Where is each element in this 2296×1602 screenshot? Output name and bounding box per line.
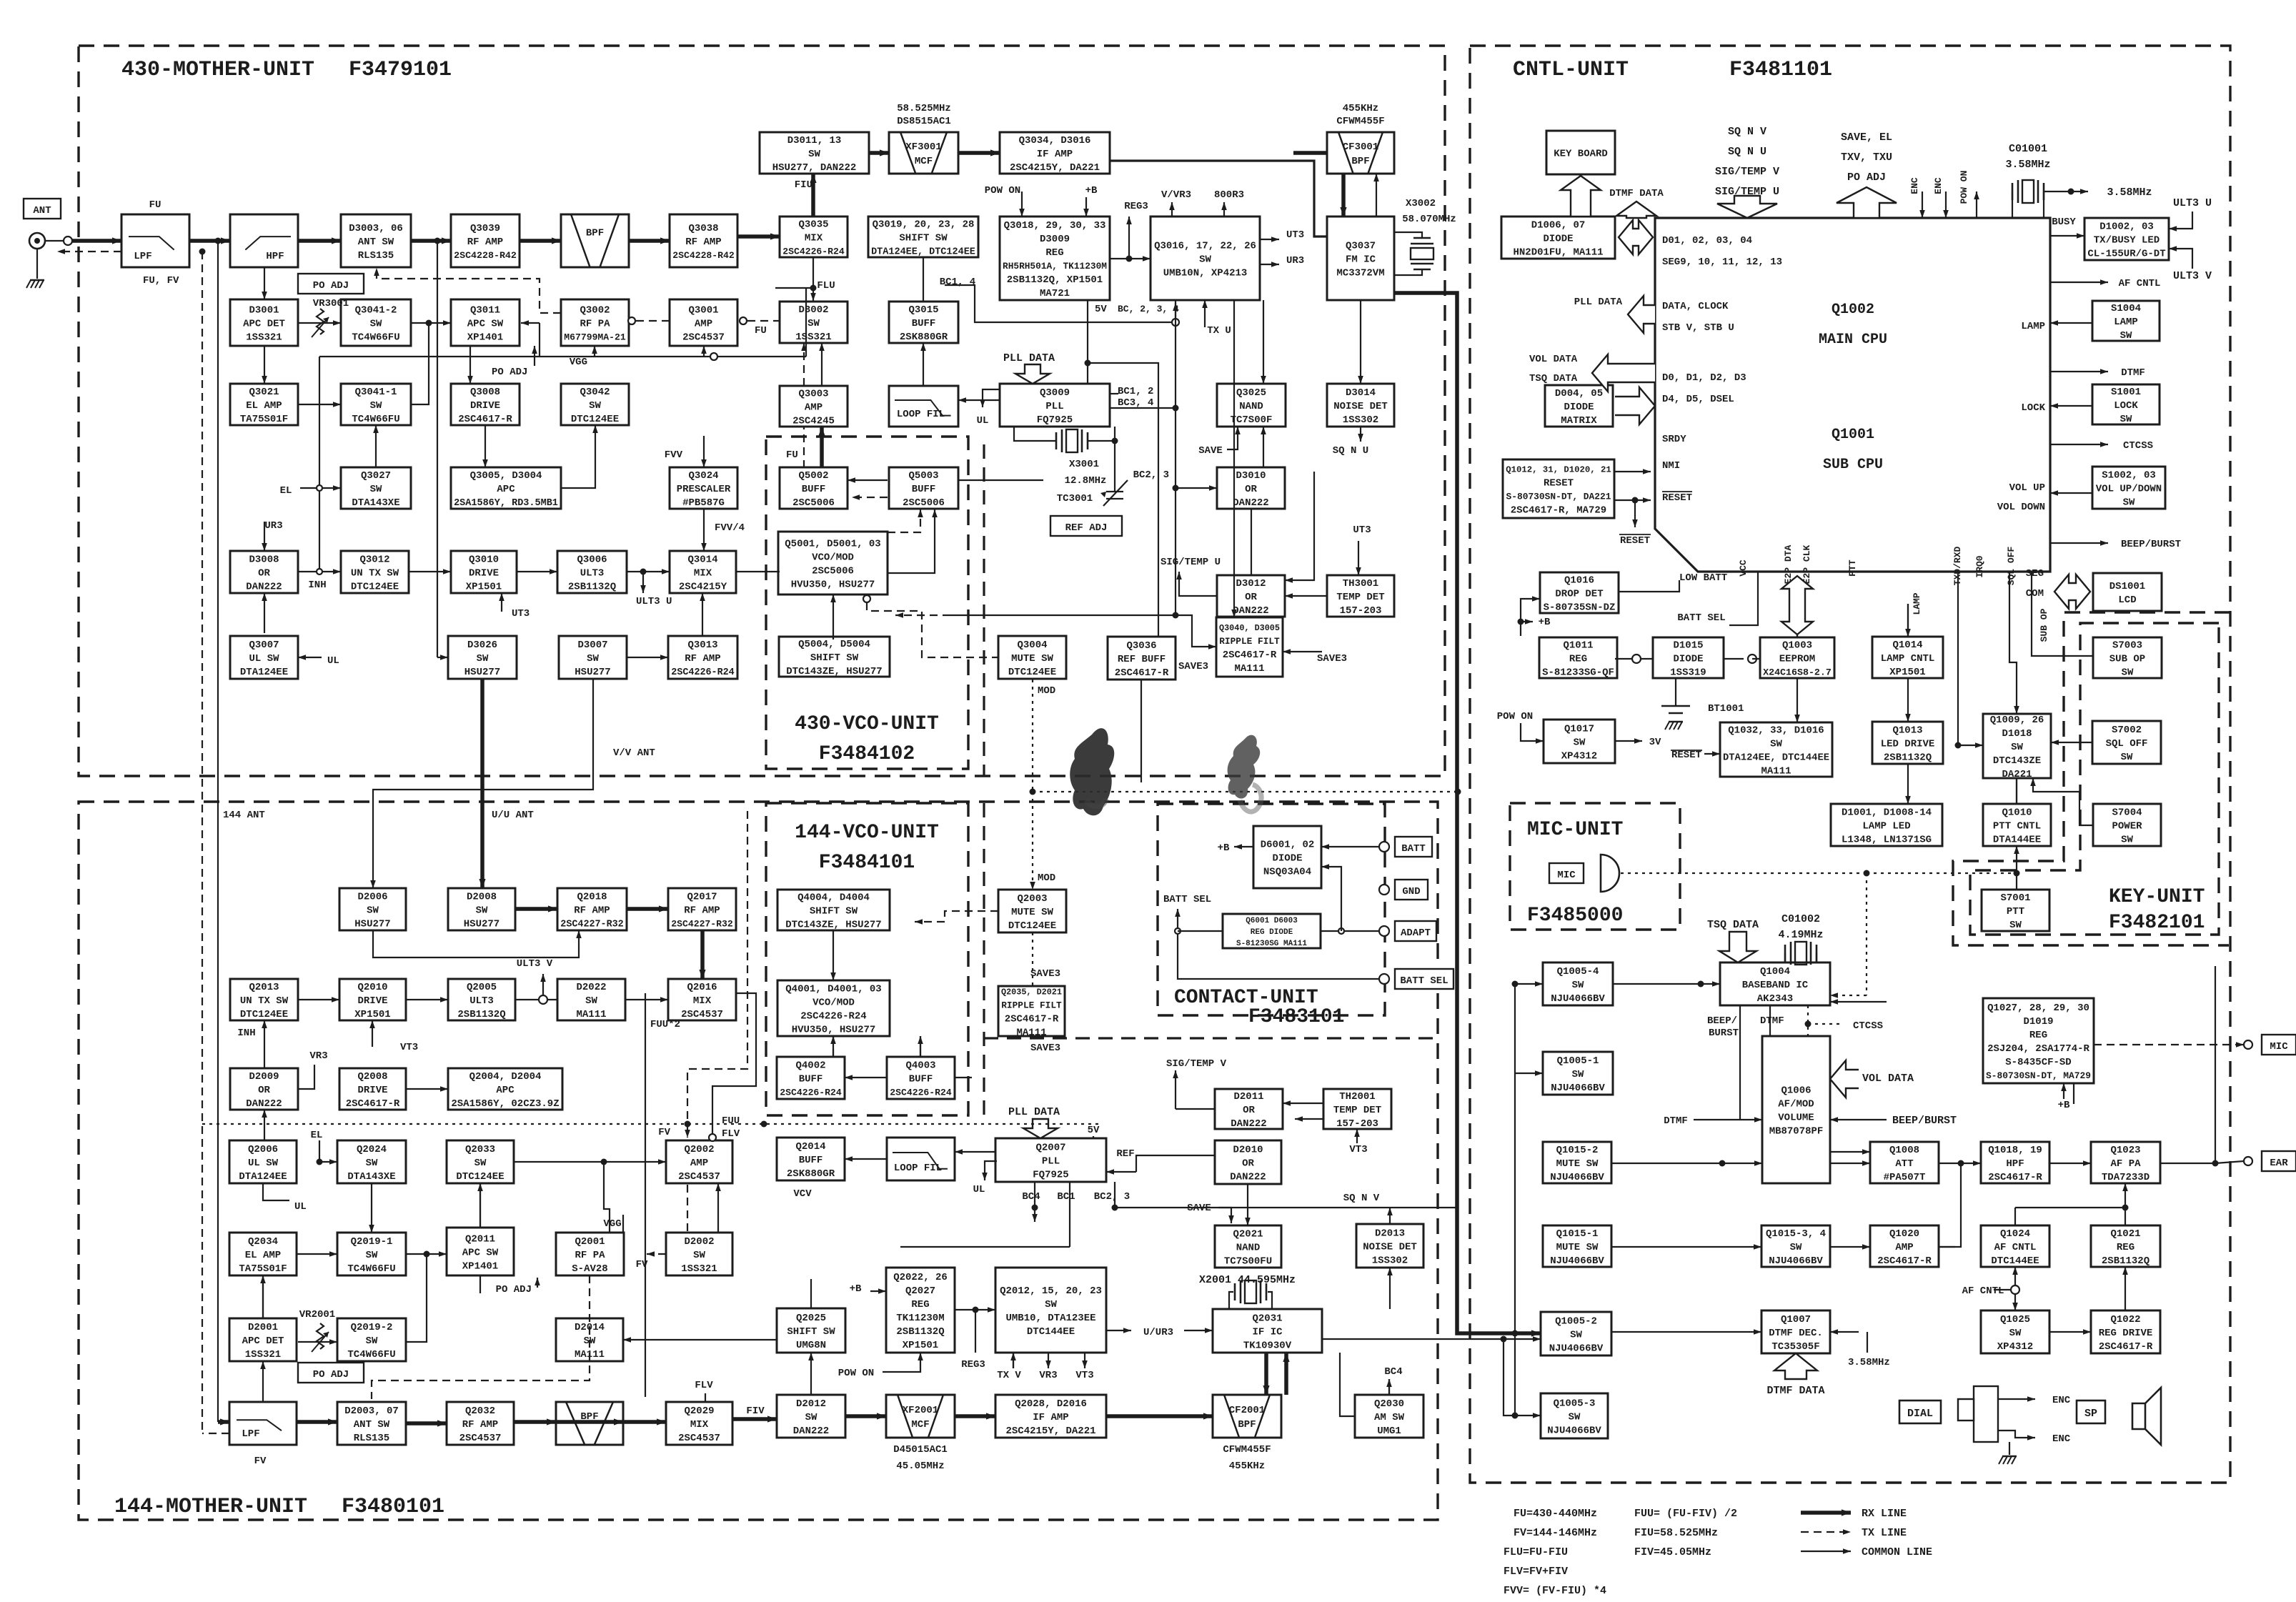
svg-text:SP: SP — [2084, 1408, 2097, 1420]
svg-text:Q3040, D3005: Q3040, D3005 — [1219, 623, 1280, 633]
block Q2001 RF PA — [556, 1233, 624, 1275]
svg-text:VOL DATA: VOL DATA — [1862, 1073, 1914, 1085]
svg-text:DS1001: DS1001 — [2109, 581, 2145, 592]
block D3014 NOISE DET — [1327, 384, 1394, 427]
wire UL into Q3007 — [298, 657, 322, 658]
svg-text:DAN222: DAN222 — [246, 581, 282, 592]
svg-text:VOL UP: VOL UP — [2009, 482, 2045, 494]
svg-text:SW: SW — [1570, 1329, 1582, 1340]
wire Q5003 right out — [958, 479, 1043, 481]
svg-text:RIPPLE FILT: RIPPLE FILT — [1219, 636, 1280, 647]
wire Q3035 to D3002 FLU — [812, 257, 814, 301]
svg-text:VT3: VT3 — [400, 1042, 418, 1053]
svg-text:Q2024: Q2024 — [357, 1144, 387, 1155]
wire VCO to Q4003 — [920, 1036, 921, 1057]
svg-text:Q5002: Q5002 — [798, 470, 828, 482]
svg-text:SW: SW — [474, 1158, 487, 1169]
svg-text:430-VCO-UNIT: 430-VCO-UNIT — [795, 713, 939, 735]
wire Q2005 out — [515, 999, 557, 1000]
svg-text:D3001: D3001 — [249, 304, 279, 316]
wire odot up into Q3016 — [1175, 303, 1176, 319]
wire LPF up to D2001 — [262, 1361, 264, 1402]
svg-text:REF: REF — [1116, 1148, 1134, 1160]
svg-text:VT3: VT3 — [1075, 1370, 1093, 1381]
wire Q2031 down to CF2001 — [1264, 1353, 1268, 1395]
svg-text:LPF: LPF — [242, 1428, 259, 1440]
svg-text:Q2004, D2004: Q2004, D2004 — [469, 1071, 542, 1083]
svg-text:DROP DET: DROP DET — [1555, 588, 1603, 599]
svg-text:DTC124EE: DTC124EE — [240, 1009, 288, 1020]
svg-text:UL: UL — [977, 415, 989, 427]
wire ADAPT up to D6001 — [1321, 867, 1341, 931]
trimmer capacitor TC3001 — [1103, 480, 1128, 506]
svg-text:FM IC: FM IC — [1346, 254, 1376, 265]
svg-text:BPF: BPF — [1351, 156, 1369, 167]
svg-text:Q1005-4: Q1005-4 — [1557, 966, 1599, 977]
svg-text:REF BUFF: REF BUFF — [1118, 654, 1166, 665]
wire Q2012 U/UR3 out — [1106, 1330, 1131, 1331]
block Q2012 SW — [995, 1268, 1106, 1353]
wire BPF to Q2029 — [623, 1420, 666, 1424]
svg-text:SRDY: SRDY — [1662, 434, 1686, 445]
svg-text:DTA143XE: DTA143XE — [352, 497, 399, 509]
svg-text:TH3001: TH3001 — [1343, 578, 1378, 589]
block Q3042 SW — [561, 384, 629, 425]
svg-text:Q2022, 26: Q2022, 26 — [893, 1272, 948, 1283]
svg-text:RESET: RESET — [1662, 492, 1692, 504]
svg-text:D2001: D2001 — [248, 1322, 278, 1333]
wire SQL OFF down to Q1009 — [2009, 572, 2017, 714]
svg-text:KEY-UNIT: KEY-UNIT — [2109, 886, 2205, 908]
block DIAL — [1899, 1400, 1941, 1423]
svg-text:DIAL: DIAL — [1907, 1408, 1933, 1420]
wire LAMP sw to CPU — [2050, 322, 2092, 324]
svg-text:DRIVE: DRIVE — [357, 1085, 387, 1096]
svg-text:Q3007: Q3007 — [249, 640, 279, 651]
svg-text:FV=144-146MHz: FV=144-146MHz — [1514, 1527, 1597, 1539]
block Q4001 VCO/MOD — [777, 980, 890, 1036]
wire vertical right of Q1027 — [2215, 966, 2216, 1163]
svg-text:BUFF: BUFF — [909, 1073, 933, 1085]
svg-text:S-81230SG MA111: S-81230SG MA111 — [1236, 940, 1307, 948]
svg-text:Q2002: Q2002 — [684, 1144, 714, 1155]
svg-text:2SC4228-R42: 2SC4228-R42 — [454, 250, 517, 261]
wire X3001 right leg to TC3001 — [1114, 427, 1115, 492]
wire Q1008 to Q1018 — [1939, 1163, 1981, 1164]
wire ULT3 V into LED — [2169, 249, 2192, 269]
wire TH2001 to D2011 — [1283, 1103, 1323, 1104]
wire TX U into Q3016 — [1204, 300, 1206, 327]
block Q2019-2 SW — [337, 1318, 406, 1361]
svg-text:Q3037: Q3037 — [1346, 240, 1376, 252]
svg-text:SQL OFF: SQL OFF — [2006, 546, 2017, 585]
svg-text:COM: COM — [2026, 588, 2044, 599]
wire D2011 left — [1176, 1108, 1215, 1110]
svg-text:MA111: MA111 — [1761, 765, 1791, 777]
wire AF CNTL node — [1994, 1289, 2015, 1290]
svg-text:4.19MHz: 4.19MHz — [1778, 929, 1823, 941]
filter XF2001 MCF — [886, 1395, 955, 1438]
block D1002,03 TX/BUSY LED — [2084, 218, 2169, 260]
svg-text:2SK880GR: 2SK880GR — [900, 332, 948, 343]
svg-text:REG: REG — [1569, 653, 1587, 665]
wire VT3 into Q2010 — [372, 1020, 373, 1047]
wire Q2034 down — [262, 1275, 264, 1318]
svg-text:DRIVE: DRIVE — [357, 995, 387, 1007]
wire XF2001 to Q2028 — [955, 1414, 995, 1418]
svg-text:AF PA: AF PA — [2110, 1158, 2141, 1170]
svg-text:REG3: REG3 — [1124, 201, 1148, 212]
svg-text:MIX: MIX — [805, 232, 823, 244]
svg-text:RF PA: RF PA — [575, 1250, 605, 1261]
svg-text:DTMF DEC.: DTMF DEC. — [1769, 1328, 1823, 1339]
wire LAMP down to Q1014 — [1907, 604, 1909, 637]
block Q4003 BUFF — [887, 1057, 955, 1099]
svg-text:DIODE: DIODE — [1673, 653, 1703, 665]
svg-text:Q1005-1: Q1005-1 — [1557, 1055, 1599, 1067]
svg-text:RX LINE: RX LINE — [1862, 1508, 1907, 1520]
wire Q5004 up to VCO — [833, 594, 834, 640]
svg-text:Q3024: Q3024 — [688, 470, 718, 482]
svg-text:Q1027, 28, 29, 30: Q1027, 28, 29, 30 — [1987, 1003, 2089, 1014]
wire Q2011 down — [479, 1275, 481, 1293]
svg-text:D1019: D1019 — [2023, 1016, 2053, 1028]
wire Q3018 to Q3016 — [1110, 258, 1151, 259]
svg-text:NMI: NMI — [1662, 460, 1680, 472]
svg-text:D2022: D2022 — [576, 982, 606, 993]
svg-text:SW: SW — [1199, 254, 1211, 265]
block Q3001 AMP — [670, 299, 737, 346]
wire into Q1005-4 — [1515, 983, 1543, 985]
svg-text:EL: EL — [311, 1130, 323, 1141]
svg-text:FVV= (FV-FIU) *4: FVV= (FV-FIU) *4 — [1504, 1585, 1606, 1597]
wire DTMF out — [2050, 371, 2108, 372]
wire Q5003 to Q5002 — [848, 479, 888, 481]
unit frame KEY-UNIT inner — [1970, 623, 2219, 935]
wire D2022 to Q2016 — [625, 999, 668, 1000]
svg-text:1SS321: 1SS321 — [245, 1349, 281, 1360]
block D3002 SW — [780, 302, 848, 343]
wire VCO dashed down to Q3004 — [863, 595, 870, 602]
block Q3039 RF AMP — [451, 214, 520, 267]
svg-text:3.58MHz: 3.58MHz — [2107, 186, 2152, 199]
wire D3010 down to D3012 — [1251, 509, 1252, 575]
svg-text:RLS135: RLS135 — [358, 250, 394, 262]
block TH2001 TEMP DET — [1323, 1089, 1391, 1130]
block Q3015 BUFF — [889, 302, 958, 343]
block Q5004 SHIFT SW — [779, 637, 890, 677]
svg-text:D3014: D3014 — [1346, 387, 1376, 399]
wire UR3 out — [1260, 264, 1279, 265]
svg-text:2SA1586Y, RD3.5MB1: 2SA1586Y, RD3.5MB1 — [454, 498, 558, 509]
block S1004 LAMP SW — [2092, 301, 2160, 342]
block Q2029 MIX — [666, 1402, 732, 1445]
block Q3013 RF AMP — [668, 636, 737, 679]
svg-text:HSU277: HSU277 — [354, 918, 390, 930]
svg-text:VR3001: VR3001 — [313, 298, 349, 309]
block Q2005 ULT3 — [448, 979, 515, 1020]
svg-text:Q2001: Q2001 — [575, 1236, 605, 1248]
block Q1008 ATT — [1870, 1142, 1939, 1183]
dashed CTCSS — [1807, 1005, 1809, 1036]
svg-text:LOW BATT: LOW BATT — [1679, 572, 1727, 584]
wire crystal to Q1004 — [1784, 953, 1786, 962]
wire dashed up to D3002 — [803, 343, 805, 386]
svg-text:5V: 5V — [1095, 304, 1107, 315]
svg-text:PO ADJ: PO ADJ — [1847, 171, 1886, 184]
filter CF3001 BPF — [1327, 132, 1394, 174]
wire bus down to Q1005-2 — [1514, 1073, 1516, 1333]
svg-text:TXV, TXU: TXV, TXU — [1841, 151, 1892, 164]
svg-text:SEG: SEG — [2026, 568, 2044, 579]
block D2013 NOISE DET — [1356, 1224, 1423, 1268]
wire VCO down — [833, 1036, 834, 1057]
svg-text:UT3: UT3 — [1353, 524, 1371, 536]
svg-text:IF AMP: IF AMP — [1033, 1412, 1068, 1423]
dashed aux frame 144/contact region — [983, 803, 985, 1115]
svg-text:DTC124EE: DTC124EE — [571, 414, 619, 425]
svg-text:F3480101: F3480101 — [342, 1495, 444, 1519]
svg-text:LAMP LED: LAMP LED — [1862, 820, 1910, 832]
svg-text:AF/MOD: AF/MOD — [1778, 1098, 1814, 1110]
svg-text:DATA, CLOCK: DATA, CLOCK — [1662, 301, 1729, 312]
svg-text:UN TX SW: UN TX SW — [351, 567, 399, 579]
wire to 3.58MHz out — [2044, 191, 2071, 192]
wire 3.58MHz into Q1007 — [1830, 1331, 1859, 1333]
wire UL stub — [263, 1183, 289, 1200]
svg-text:INH: INH — [308, 579, 326, 591]
svg-text:DTMF DATA: DTMF DATA — [1766, 1385, 1824, 1397]
svg-text:SW: SW — [1790, 1242, 1802, 1253]
svg-text:UMB10, DTA123EE: UMB10, DTA123EE — [1005, 1313, 1095, 1324]
svg-text:Q2034: Q2034 — [248, 1236, 278, 1248]
svg-text:AF CNTL: AF CNTL — [2119, 278, 2161, 289]
svg-text:Q3009: Q3009 — [1040, 387, 1070, 399]
svg-text:IRQ0: IRQ0 — [1974, 555, 1985, 577]
svg-text:SHIFT SW: SHIFT SW — [899, 232, 948, 244]
block D2003,07 ANT SW — [337, 1402, 406, 1445]
wire HPF down to D3001 — [264, 268, 265, 299]
block S7004 POWER SW — [2093, 804, 2161, 846]
wire U/U ANT D3026 to D2008 — [480, 679, 484, 888]
wire Q1014 to Q1013 — [1907, 678, 1909, 722]
svg-text:Q5001, D5001, 03: Q5001, D5001, 03 — [785, 538, 880, 549]
svg-text:Q2003: Q2003 — [1017, 893, 1047, 905]
svg-text:2SC4226-R24: 2SC4226-R24 — [890, 1087, 952, 1098]
block TH3001 TEMP DET — [1327, 575, 1394, 617]
wire VCO dashed to Q5003 — [888, 509, 920, 532]
unit frame 144-VCO-UNIT — [766, 803, 968, 1115]
block Q3011 APC SW — [451, 299, 520, 346]
svg-text:APC: APC — [496, 1085, 515, 1096]
svg-text:D0, D1, D2, D3: D0, D1, D2, D3 — [1662, 372, 1746, 384]
svg-text:SW: SW — [1770, 738, 1782, 750]
svg-text:DTA124EE: DTA124EE — [239, 1171, 287, 1183]
wire LPF TX return dashed — [57, 251, 121, 252]
block D6001,02 DIODE — [1253, 826, 1321, 888]
block D2014 SW — [556, 1318, 623, 1361]
svg-text:TA75S01F: TA75S01F — [240, 414, 288, 425]
wire Q2008 to Q2004 — [406, 1088, 448, 1090]
svg-text:D1018: D1018 — [2002, 728, 2032, 740]
svg-text:NJU4066BV: NJU4066BV — [1769, 1255, 1823, 1267]
wire AF CNTL out — [2050, 282, 2108, 283]
block D3007 SW — [559, 636, 627, 679]
wire RESET — [1614, 499, 1651, 501]
wire S7001 to Q1010 — [2016, 846, 2017, 890]
svg-text:Q1009, 26: Q1009, 26 — [1990, 715, 2044, 726]
wire Q3006 to Q3014 — [627, 571, 670, 572]
wire VGG into Q3002 — [594, 346, 595, 357]
block Q1009,26 D1018 SW — [1983, 714, 2051, 780]
svg-text:58.525MHz: 58.525MHz — [897, 103, 951, 114]
svg-text:S-80735SN-DZ: S-80735SN-DZ — [1544, 602, 1616, 613]
wire Q1018 to Q1023 — [2049, 1163, 2091, 1164]
block S7001 PTT SW — [1982, 890, 2049, 931]
block Q1025 SW — [1981, 1310, 2049, 1353]
svg-text:RESET: RESET — [1620, 535, 1650, 547]
svg-text:EAR: EAR — [2270, 1158, 2288, 1169]
svg-text:2SC4537: 2SC4537 — [682, 332, 725, 343]
wire Q2016 out to Q2002 FUU/FLV — [712, 993, 756, 1135]
svg-text:F3484102: F3484102 — [819, 743, 915, 765]
speaker symbol — [2132, 1388, 2161, 1445]
svg-text:2SC4537: 2SC4537 — [459, 1433, 502, 1444]
wire Q3009 BC1,2 right — [1110, 393, 1118, 394]
wire D2001 to Q2019-2 via VR2001 — [298, 1341, 337, 1343]
svg-text:144-MOTHER-UNIT: 144-MOTHER-UNIT — [114, 1495, 307, 1519]
wire BEEP/BURST into Q1006 — [1830, 1119, 1887, 1120]
wire MIC dashed to jack — [2094, 1044, 2244, 1045]
svg-text:+B: +B — [850, 1283, 862, 1295]
block Q1018,19 HPF — [1981, 1142, 2049, 1183]
svg-text:Q2031: Q2031 — [1252, 1313, 1282, 1324]
wire Q3021 to Q3041-1 — [298, 404, 341, 405]
svg-text:2SC4537: 2SC4537 — [678, 1171, 720, 1183]
svg-text:NJU4066BV: NJU4066BV — [1551, 993, 1605, 1005]
block Q2011 APC SW — [447, 1228, 514, 1275]
svg-text:Q3002: Q3002 — [580, 304, 610, 316]
wire Q3041-1 up to node — [411, 323, 429, 404]
svg-text:1SS302: 1SS302 — [1372, 1255, 1408, 1266]
block Q1020 AMP — [1870, 1225, 1939, 1267]
svg-text:D3009: D3009 — [1040, 234, 1070, 245]
wire Q2025 up — [810, 1279, 812, 1308]
svg-text:F3482101: F3482101 — [2109, 912, 2205, 934]
svg-text:BEEP/BURST: BEEP/BURST — [2121, 539, 2181, 550]
svg-text:PLL: PLL — [1045, 401, 1063, 412]
svg-text:TA75S01F: TA75S01F — [239, 1263, 287, 1275]
wire D3012 to SIG/TEMP U — [1179, 572, 1217, 596]
svg-text:Q3034, D3016: Q3034, D3016 — [1019, 135, 1091, 146]
svg-text:2SB1132Q: 2SB1132Q — [896, 1326, 944, 1338]
wire Q1006 to Q1008 — [1830, 1163, 1870, 1164]
block Q1015-2 MUTE SW — [1543, 1142, 1611, 1183]
svg-text:BC1, 4: BC1, 4 — [940, 277, 975, 288]
wire Q1009 left node — [1958, 745, 1983, 746]
svg-text:SW: SW — [1045, 1299, 1057, 1310]
wire D2012 to XF2001 — [845, 1414, 886, 1418]
block Q1012 RESET — [1503, 459, 1614, 518]
wire left bus down — [1514, 984, 1516, 1073]
wire Q2019-1 to Q2011 — [406, 1253, 447, 1255]
svg-text:DTC143ZE, HSU277: DTC143ZE, HSU277 — [785, 919, 881, 930]
svg-text:Q4001, D4001, 03: Q4001, D4001, 03 — [785, 983, 881, 995]
block D3001 APC DET — [230, 299, 298, 346]
svg-text:FLV=FV+FIV: FLV=FV+FIV — [1504, 1566, 1568, 1578]
block Q2008 DRIVE — [339, 1068, 406, 1110]
svg-text:Q4004, D4004: Q4004, D4004 — [797, 892, 870, 903]
wire PO ADJ stub — [537, 1278, 538, 1288]
svg-text:TC4W66FU: TC4W66FU — [352, 414, 399, 425]
hollow arrow PLL DATA — [1628, 296, 1655, 333]
wire Q1005-4 to Q1004 — [1613, 983, 1720, 985]
wire D2006 to Q2018 bottom — [373, 930, 579, 957]
svg-text:2SC4226-R24: 2SC4226-R24 — [800, 1010, 866, 1022]
svg-text:X3001: X3001 — [1069, 459, 1099, 470]
svg-text:POW ON: POW ON — [1497, 711, 1533, 722]
svg-text:S7004: S7004 — [2112, 807, 2142, 818]
svg-text:2SB1132Q: 2SB1132Q — [1884, 752, 1932, 763]
svg-text:POW ON: POW ON — [985, 185, 1020, 196]
svg-text:SW: SW — [366, 1335, 378, 1347]
wire to Q6001 — [1178, 930, 1223, 932]
svg-text:FLV: FLV — [695, 1380, 713, 1391]
wire Q1011 to D1015 — [1615, 658, 1653, 660]
block Q2021 NAND — [1215, 1225, 1281, 1268]
svg-text:CL-155UR/G-DT: CL-155UR/G-DT — [2087, 248, 2165, 259]
wire S7002 to Q1009 — [2051, 742, 2092, 743]
svg-text:SQ N U: SQ N U — [1333, 445, 1368, 457]
svg-text:KEY BOARD: KEY BOARD — [1554, 148, 1608, 159]
filter HPF 430 — [230, 214, 298, 267]
svg-text:S-80730SN-DT, DA221: S-80730SN-DT, DA221 — [1506, 491, 1611, 502]
block Q2035 RIPPLE FILT — [998, 986, 1065, 1038]
svg-text:BUFF: BUFF — [799, 1155, 823, 1166]
svg-text:+B: +B — [2058, 1100, 2070, 1111]
svg-text:S-81233SG-QF: S-81233SG-QF — [1542, 667, 1614, 678]
svg-text:UT3: UT3 — [1286, 229, 1304, 241]
wire Q5002 dashed to Q3003 — [803, 427, 805, 468]
wire POW ON down — [1521, 723, 1544, 741]
wire V/V ANT to D2006 — [373, 679, 593, 888]
wire Q2017 down to Q2016 — [700, 930, 705, 979]
wire Q4003 right out — [955, 1077, 972, 1078]
svg-text:MC3372VM: MC3372VM — [1336, 267, 1384, 279]
svg-text:S-8435CF-SD: S-8435CF-SD — [2005, 1057, 2071, 1068]
svg-text:5V: 5V — [1088, 1125, 1100, 1136]
block Q1015-3,4 SW — [1761, 1225, 1830, 1267]
svg-text:FIU: FIU — [795, 179, 812, 191]
unit frame MIC-UNIT — [1510, 803, 1680, 930]
svg-text:SUB CPU: SUB CPU — [1823, 457, 1883, 473]
wire Q3014 out to VCO region — [736, 571, 780, 572]
svg-text:Q1005-3: Q1005-3 — [1554, 1398, 1596, 1409]
wire BUSY CPU to LED — [2050, 235, 2084, 237]
block Q3027 SW — [341, 467, 411, 509]
svg-text:1SS321: 1SS321 — [681, 1263, 717, 1275]
block Q3014 MIX — [670, 551, 736, 593]
dashed mic line — [1621, 872, 1867, 874]
legend TX LINE — [1801, 1531, 1851, 1533]
svg-text:AMP: AMP — [1895, 1242, 1913, 1253]
svg-text:Q3008: Q3008 — [470, 387, 500, 398]
svg-text:FIV: FIV — [746, 1406, 765, 1417]
block D3008 OR — [230, 551, 298, 593]
svg-text:SQ N U: SQ N U — [1728, 146, 1766, 158]
block Q1013 LED DRIVE — [1872, 722, 1943, 764]
svg-text:Q1015-2: Q1015-2 — [1556, 1145, 1599, 1156]
